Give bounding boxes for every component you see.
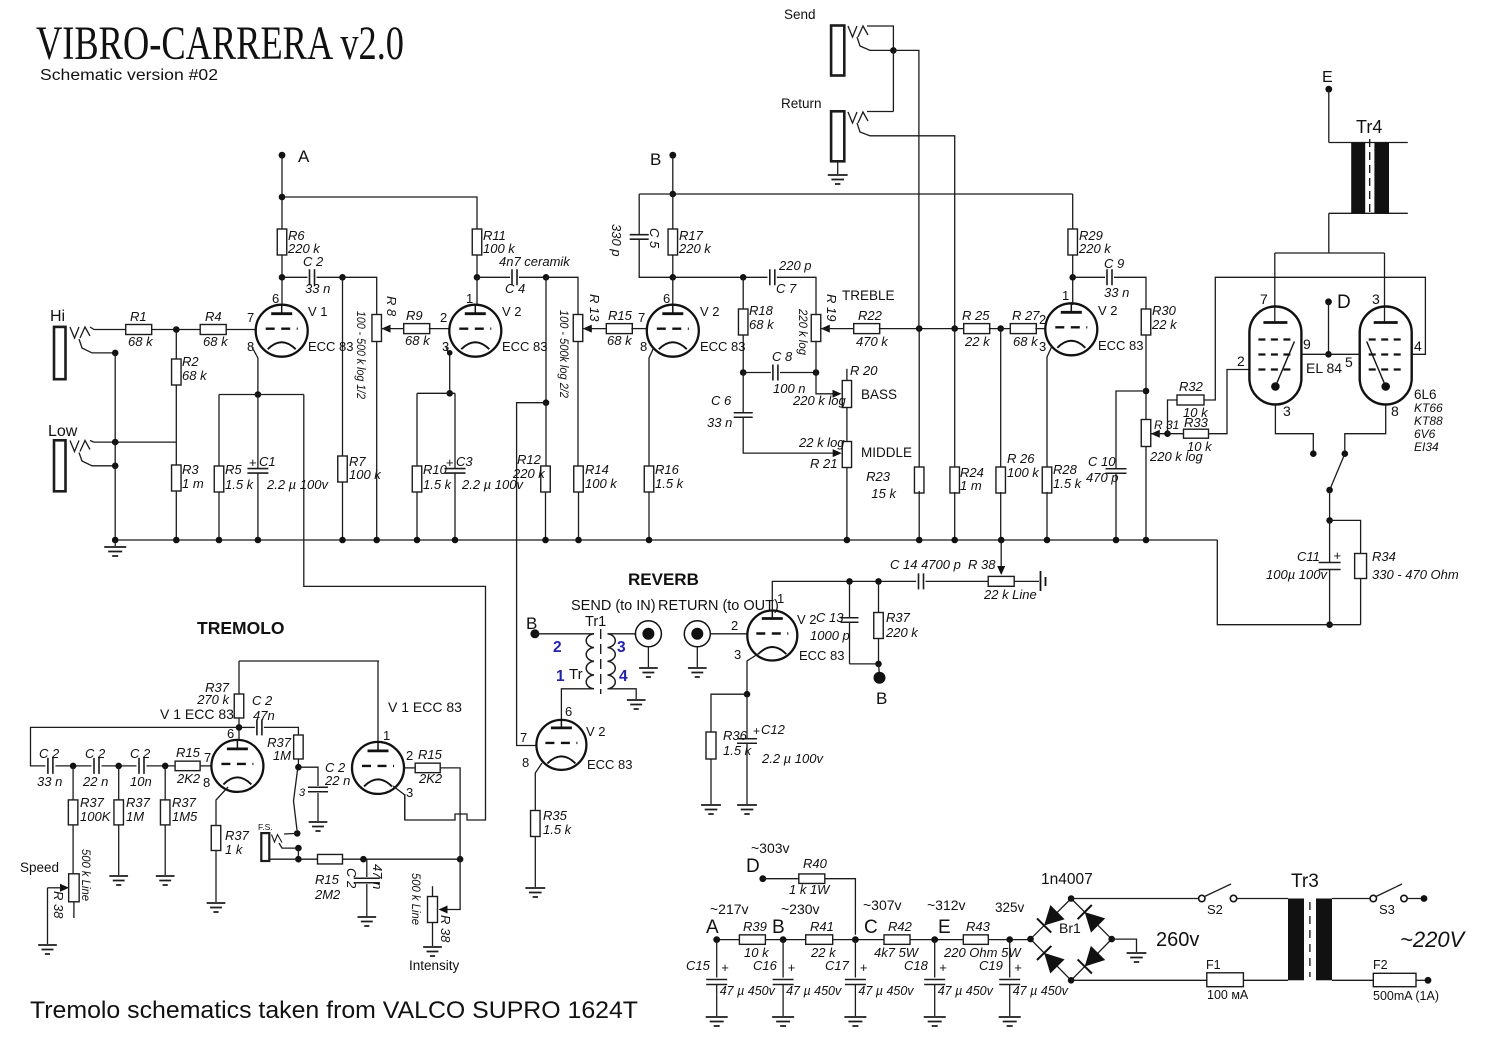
svg-text:4: 4 — [619, 668, 628, 685]
input jack Hi — [50, 308, 90, 379]
svg-text:R43: R43 — [966, 919, 991, 934]
wire R11 to plate node — [476, 255, 478, 277]
junction V2 cathode node — [446, 390, 453, 397]
svg-text:R28: R28 — [1053, 462, 1078, 477]
svg-text:500 k Line: 500 k Line — [409, 873, 423, 925]
svg-text:MIDDLE: MIDDLE — [861, 445, 912, 460]
svg-text:F1: F1 — [1206, 958, 1221, 972]
potentiometer R38 Speed — [20, 849, 93, 919]
resistor R10 — [412, 462, 452, 492]
wire B rail — [639, 193, 1072, 195]
wire node B down — [672, 155, 674, 194]
svg-text:10n: 10n — [130, 774, 152, 789]
svg-text:Tr: Tr — [569, 666, 583, 683]
resistor R29 — [1068, 194, 1112, 277]
label TREMOLO — [197, 618, 285, 638]
capacitor C9 33n — [1073, 256, 1146, 309]
junction trem node1 — [70, 763, 77, 770]
svg-text:C 5: C 5 — [647, 228, 662, 249]
resistor R37 270k — [196, 680, 244, 718]
wire grid line between tubes — [1302, 353, 1360, 355]
wire R15 2M2 to junction — [343, 858, 461, 860]
wire bridge bottom to F1 — [1071, 979, 1207, 981]
svg-text:+: + — [446, 455, 454, 470]
wire return rca to V2 pin2 — [710, 633, 748, 635]
wire reverb feed line — [517, 403, 546, 746]
capacitor C2 22n right — [298, 760, 350, 821]
wire R13 bottom to R14 — [577, 342, 579, 467]
svg-text:R 26: R 26 — [1007, 451, 1035, 466]
wire R24 to bus — [954, 492, 956, 540]
wire Tr4 to plates line — [1328, 213, 1330, 253]
svg-text:500mA (1A): 500mA (1A) — [1373, 989, 1439, 1003]
wire S1 to C11 node — [1329, 490, 1331, 520]
svg-text:R30: R30 — [1152, 303, 1177, 318]
svg-text:KT88: KT88 — [1414, 414, 1443, 428]
svg-text:1: 1 — [466, 291, 473, 306]
svg-text:R15: R15 — [608, 308, 633, 323]
svg-text:ECC 83: ECC 83 — [799, 648, 845, 663]
resistor R25 — [962, 308, 991, 349]
svg-text:22 n: 22 n — [82, 774, 108, 789]
svg-text:47n: 47n — [253, 708, 275, 723]
bridge rectifier Br1 — [1027, 871, 1115, 984]
svg-text:TREBLE: TREBLE — [842, 288, 895, 303]
svg-text:E: E — [1322, 69, 1333, 86]
terminal dot bottom right — [1425, 977, 1432, 984]
svg-text:~303v: ~303v — [751, 840, 790, 856]
svg-text:1.5 k: 1.5 k — [1053, 476, 1083, 491]
svg-text:1 m: 1 m — [182, 476, 204, 491]
wire C4 out down — [545, 277, 547, 402]
svg-text:B: B — [526, 614, 537, 633]
svg-text:220 k: 220 k — [1078, 241, 1112, 256]
svg-text:C 2: C 2 — [130, 746, 151, 761]
svg-text:2: 2 — [406, 748, 413, 763]
junction R37 node — [875, 578, 882, 585]
svg-text:C11: C11 — [1297, 549, 1320, 564]
svg-text:+: + — [939, 960, 947, 975]
svg-text:3: 3 — [1039, 339, 1046, 354]
junction send line — [916, 325, 923, 332]
svg-text:1M: 1M — [273, 748, 291, 763]
svg-text:ECC 83: ECC 83 — [700, 339, 746, 354]
potentiometer R20 BASS — [792, 363, 897, 408]
svg-text:R39: R39 — [743, 919, 767, 934]
wire A rail to R11 — [282, 197, 477, 229]
svg-text:R1: R1 — [130, 309, 147, 324]
wire F2 to output — [1416, 979, 1428, 981]
wire C2 out to pot R8 — [343, 277, 377, 314]
svg-text:B: B — [772, 917, 785, 938]
svg-text:R42: R42 — [888, 919, 913, 934]
svg-text:C 2: C 2 — [85, 746, 106, 761]
svg-text:6L6: 6L6 — [1414, 387, 1437, 402]
svg-text:220 k log: 220 k log — [792, 393, 847, 408]
wire to R12 — [545, 403, 547, 466]
wire C4 out to pot R13 — [546, 277, 578, 314]
junction Hi sleeve — [112, 350, 119, 357]
wire tube2 pin2 to R15 2K2 — [404, 767, 415, 769]
ground R37 1M5 — [156, 876, 175, 885]
svg-text:6: 6 — [663, 291, 670, 306]
svg-text:R3: R3 — [182, 462, 199, 477]
svg-text:1n4007: 1n4007 — [1041, 871, 1093, 888]
wire R37 270k bottom — [238, 718, 240, 740]
wire R21 to bus — [846, 468, 848, 541]
svg-text:TREMOLO: TREMOLO — [197, 618, 285, 638]
ground R35 — [525, 888, 545, 897]
svg-text:C 2: C 2 — [39, 746, 60, 761]
svg-text:470 k: 470 k — [856, 334, 889, 349]
svg-text:R2: R2 — [182, 354, 199, 369]
svg-text:1.5 k: 1.5 k — [543, 822, 573, 837]
svg-text:220 p: 220 p — [778, 258, 812, 273]
resistor R9 — [404, 308, 431, 348]
svg-text:Speed: Speed — [20, 860, 59, 875]
capacitor C15 — [686, 940, 776, 1026]
resistor R41 — [806, 919, 837, 960]
svg-text:A: A — [706, 917, 719, 938]
svg-text:100 мА: 100 мА — [1207, 988, 1249, 1002]
svg-text:33 n: 33 n — [707, 415, 732, 430]
svg-text:68 k: 68 k — [405, 333, 431, 348]
resistor R37 100K — [68, 766, 111, 825]
svg-text:2K2: 2K2 — [176, 771, 201, 786]
junction R32 R33 node — [1164, 430, 1171, 437]
junction switch pole — [294, 830, 301, 837]
bottom caption text — [30, 997, 638, 1024]
resistor R2 — [172, 354, 209, 385]
svg-text:7: 7 — [247, 310, 254, 325]
junction V2 pin3 — [447, 350, 453, 356]
wire fs upper contact — [284, 832, 297, 835]
svg-text:8: 8 — [203, 775, 210, 790]
svg-text:22 k Line: 22 k Line — [983, 587, 1037, 602]
svg-text:C 10: C 10 — [1088, 454, 1116, 469]
svg-text:1M: 1M — [126, 809, 144, 824]
potentiometer R38 reverb level — [968, 540, 1037, 602]
capacitor C2 47n top — [239, 693, 298, 735]
wire bridge top to S2 — [1071, 898, 1199, 900]
svg-text:1.5 k: 1.5 k — [655, 476, 685, 491]
wire R32 to EL84 pin4 — [1204, 277, 1425, 400]
svg-text:2K2: 2K2 — [418, 771, 443, 786]
svg-text:220 k log: 220 k log — [796, 308, 810, 355]
wire R5 to bus — [218, 492, 220, 540]
wire node D down — [1328, 302, 1330, 355]
wire R18 bottom — [742, 335, 744, 373]
wire BASS wiper — [816, 373, 842, 398]
svg-text:220 k: 220 k — [885, 625, 919, 640]
svg-text:A: A — [298, 147, 310, 166]
node B psu — [772, 901, 820, 943]
svg-text:68 k: 68 k — [749, 317, 775, 332]
resistor R28 — [1042, 462, 1082, 493]
wire R25 to R27 — [989, 328, 1012, 330]
svg-text:1: 1 — [383, 728, 390, 743]
svg-text:R34: R34 — [1372, 549, 1396, 564]
svg-text:C 2: C 2 — [344, 868, 359, 889]
node C psu — [852, 897, 902, 943]
junction R36 C12 node — [744, 691, 751, 698]
wire V2 cathode — [446, 347, 450, 393]
resistor R12 — [512, 452, 550, 492]
capacitor C2 22n tremolo — [82, 746, 137, 789]
wire V2 pin1 stub — [476, 277, 478, 305]
svg-text:R 25: R 25 — [962, 308, 990, 323]
switch S2 — [1199, 884, 1237, 917]
node D — [1325, 292, 1351, 313]
wire EL84 left cathode down — [1275, 405, 1313, 454]
title text — [36, 17, 404, 70]
svg-text:V 1 ECC 83: V 1 ECC 83 — [160, 706, 234, 722]
svg-text:C12: C12 — [761, 722, 786, 737]
svg-text:47 µ 450v: 47 µ 450v — [858, 984, 914, 998]
svg-text:R16: R16 — [655, 462, 680, 477]
svg-text:3: 3 — [617, 639, 626, 656]
svg-text:3: 3 — [734, 647, 741, 662]
wire node E to Tr4 — [1328, 89, 1330, 142]
junction V1 cathode node — [255, 391, 262, 398]
chassis ground reverb — [1041, 571, 1046, 591]
wire Hi sleeve hook — [79, 339, 115, 353]
triode V2 reverb output — [731, 591, 845, 663]
junction trem node3 — [162, 763, 169, 770]
svg-text:R4: R4 — [205, 309, 222, 324]
svg-text:325v: 325v — [995, 900, 1025, 915]
subtitle text — [40, 67, 218, 84]
resistor R15 2K2 first — [175, 745, 201, 786]
svg-text:500 k Line: 500 k Line — [79, 849, 93, 901]
svg-text:R37: R37 — [80, 795, 105, 810]
svg-text:V 2: V 2 — [797, 612, 817, 627]
svg-text:R14: R14 — [585, 462, 609, 477]
wire cathode node horizontal stage2 — [417, 392, 455, 394]
svg-text:~307v: ~307v — [863, 897, 902, 913]
svg-text:KT66: KT66 — [1414, 401, 1443, 415]
capacitor C14 4700p — [890, 557, 961, 589]
wire send tip — [867, 26, 893, 50]
svg-text:R15: R15 — [315, 872, 340, 887]
resistor R30 — [1141, 303, 1178, 335]
junction send node — [890, 47, 897, 54]
svg-text:R 38: R 38 — [51, 891, 66, 919]
wire R2 to R3 — [175, 385, 177, 465]
triode V2 second stage — [440, 291, 548, 357]
junction reverb tap — [543, 399, 550, 406]
svg-text:33 n: 33 n — [305, 281, 330, 296]
svg-text:V 2: V 2 — [586, 724, 606, 739]
junction fs node — [295, 845, 302, 852]
svg-text:22 k: 22 k — [1151, 317, 1178, 332]
resistor R3 — [172, 462, 204, 491]
resistor R11 — [472, 228, 516, 256]
wire R15 to V2 pin7 — [631, 328, 647, 330]
node B lower — [874, 664, 888, 708]
junction C13 node — [846, 578, 853, 585]
wire C14 to R38 — [926, 580, 989, 582]
resistor R17 — [668, 228, 712, 256]
svg-text:260v: 260v — [1156, 929, 1199, 951]
wire Low tip — [90, 441, 176, 443]
svg-text:D: D — [746, 856, 760, 877]
svg-text:R36: R36 — [723, 728, 748, 743]
wire R26 line — [1000, 329, 1002, 468]
wire Tr3 secondary bottom — [1332, 979, 1373, 981]
resistor R43 — [943, 919, 1022, 960]
svg-text:2: 2 — [1237, 353, 1245, 369]
svg-text:~217v: ~217v — [710, 901, 749, 917]
resistor R34 — [1330, 520, 1459, 624]
svg-text:2: 2 — [440, 310, 447, 325]
resistor R27 — [1010, 308, 1040, 349]
capacitor C3 electrolytic — [445, 393, 525, 540]
junction C11 bottom — [1326, 621, 1333, 628]
resistor R35 — [531, 808, 573, 837]
triode V2 fourth stage — [1039, 288, 1144, 355]
node B reverb — [526, 614, 539, 638]
svg-text:220 k: 220 k — [678, 241, 712, 256]
ground C12 — [737, 805, 757, 814]
wire return rca ground — [696, 646, 698, 667]
wire R36 ground — [710, 759, 712, 804]
wire S3 to output — [1407, 898, 1424, 900]
svg-text:3: 3 — [1372, 291, 1380, 307]
wire R10 to bus — [416, 492, 418, 540]
wire plate node to R18 and C7 — [673, 276, 768, 278]
svg-text:22 k log: 22 k log — [798, 435, 845, 450]
svg-text:R37: R37 — [126, 795, 151, 810]
junction A rail — [279, 194, 286, 201]
svg-text:8: 8 — [640, 339, 647, 354]
label V1 ECC83 tremolo first — [160, 706, 234, 722]
potentiometer R13 — [557, 294, 607, 399]
svg-text:Low: Low — [48, 423, 78, 440]
svg-text:3: 3 — [1283, 403, 1291, 419]
svg-text:100µ 100v: 100µ 100v — [1266, 567, 1328, 582]
wire C13 bottom tie — [850, 663, 879, 665]
resistor R22 — [854, 308, 890, 349]
svg-text:C 6: C 6 — [711, 393, 732, 408]
junction fs tip node — [295, 856, 302, 863]
wire R5 top — [218, 395, 220, 467]
capacitor C4 4n7 — [477, 254, 571, 296]
resistor R5 — [214, 462, 254, 492]
junction S1 pole — [1326, 487, 1333, 494]
transformer Tr1 — [535, 614, 628, 694]
wire R40 to node C — [825, 879, 856, 935]
resistor R37 1M tremolo — [114, 766, 151, 825]
svg-text:BASS: BASS — [861, 387, 897, 402]
wire R27 to V2 pin2 — [1035, 328, 1046, 330]
svg-text:1.5 k: 1.5 k — [225, 477, 255, 492]
wire plates line — [1275, 253, 1385, 323]
ground C2 47n bottom — [357, 917, 376, 926]
junction return line — [951, 325, 958, 332]
svg-text:E: E — [938, 917, 951, 938]
wire V1 pin6 stub — [281, 277, 283, 305]
svg-text:2: 2 — [1039, 312, 1046, 327]
svg-text:R 19: R 19 — [824, 294, 839, 321]
resistor R15 2K2 second — [415, 747, 443, 786]
svg-text:R10: R10 — [423, 462, 448, 477]
svg-text:330 p: 330 p — [609, 224, 624, 257]
wire R15 2K2 down to intensity node — [440, 768, 460, 859]
wire Hi tip to R1 — [90, 327, 125, 330]
wire R23 top — [918, 329, 920, 469]
junction C2 47n bottom node — [360, 856, 367, 863]
wire psu rail — [717, 939, 1031, 941]
svg-text:+: + — [249, 455, 257, 470]
svg-text:Return: Return — [781, 96, 822, 111]
wire reverb V2 pin1 up — [772, 581, 916, 610]
svg-text:2: 2 — [731, 618, 738, 633]
resistor R1 — [126, 309, 154, 349]
wire bridge minus to ground — [1112, 939, 1137, 952]
send jack — [784, 7, 868, 76]
ground intensity — [423, 947, 442, 956]
svg-text:1 k 1W: 1 k 1W — [789, 882, 831, 897]
svg-text:R 38: R 38 — [968, 557, 996, 572]
svg-text:330 - 470 Ohm: 330 - 470 Ohm — [1372, 567, 1459, 582]
capacitor C17 — [825, 940, 914, 1026]
wire Tr1 secondary top to send rca — [608, 633, 637, 635]
ground return jack — [828, 175, 848, 184]
junction R30 C10 node — [1143, 388, 1150, 395]
wire tremolo feedback line — [304, 395, 486, 821]
node D psu — [746, 840, 790, 882]
svg-text:R 21: R 21 — [810, 456, 837, 471]
wire R3 to bus — [175, 491, 177, 540]
label REVERB — [628, 570, 699, 589]
wire R16 to bus — [648, 492, 650, 540]
svg-text:100 k: 100 k — [1007, 465, 1040, 480]
svg-text:4n7 ceramik: 4n7 ceramik — [499, 254, 571, 269]
wire stage3 cathode — [649, 347, 654, 466]
rca jack send — [635, 621, 661, 647]
svg-text:68 k: 68 k — [182, 368, 208, 383]
wire tremolo top line — [239, 661, 379, 742]
svg-text:SEND (to IN): SEND (to IN) — [571, 598, 656, 614]
ground R37 1k — [207, 903, 226, 912]
resistor R7 — [338, 454, 383, 482]
svg-text:R15: R15 — [418, 747, 443, 762]
ground 260v — [1127, 929, 1200, 962]
svg-text:Schematic version #02: Schematic version #02 — [40, 67, 218, 84]
fs jack — [258, 822, 282, 861]
svg-text:R15: R15 — [176, 745, 201, 760]
svg-text:C 2: C 2 — [303, 254, 324, 269]
svg-text:8: 8 — [247, 339, 254, 354]
svg-text:R35: R35 — [543, 808, 568, 823]
wire R23 to bus — [918, 491, 920, 540]
svg-text:1M5: 1M5 — [172, 809, 198, 824]
svg-text:V 2: V 2 — [1098, 303, 1118, 318]
label SEND RETURN — [571, 598, 779, 614]
junction Low tip at sleeve column — [112, 439, 119, 446]
capacitor C7 220p — [770, 258, 816, 315]
junction trem node2 — [115, 763, 122, 770]
svg-text:68 k: 68 k — [203, 334, 229, 349]
fuse F2 — [1373, 958, 1439, 1003]
svg-text:7: 7 — [1260, 291, 1268, 307]
return jack — [781, 96, 868, 161]
svg-text:R37: R37 — [205, 680, 230, 695]
resistor R32 — [1168, 379, 1210, 434]
capacitor C5 330p branch — [609, 194, 673, 277]
capacitor C11 electrolytic — [1266, 520, 1341, 624]
